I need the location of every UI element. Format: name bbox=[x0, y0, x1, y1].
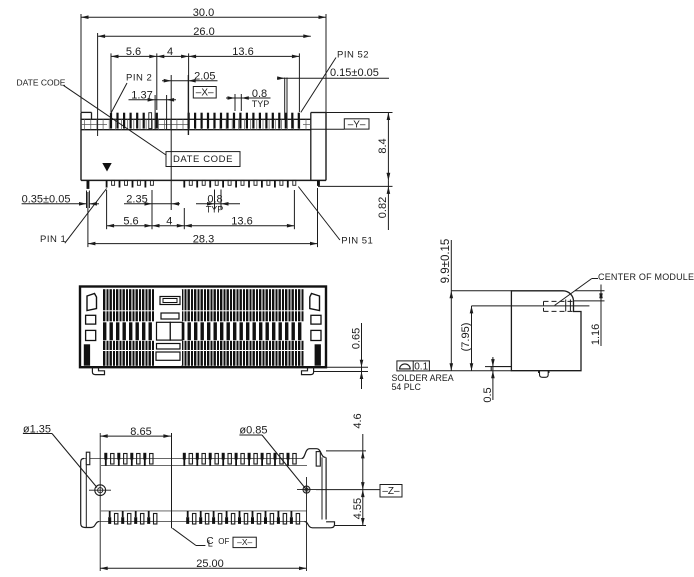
dim 8.4 bbox=[326, 113, 393, 181]
dim 0.8 TYP (top) bbox=[226, 88, 271, 111]
dim chain 5.6 / 4 / 13.6 (top) bbox=[111, 46, 299, 135]
svg-text:8.65: 8.65 bbox=[130, 426, 151, 438]
front view left end details bbox=[84, 294, 97, 366]
svg-text:9.9±0.15: 9.9±0.15 bbox=[440, 239, 452, 284]
pin 1 label bbox=[40, 189, 107, 246]
datum -Z- box bbox=[316, 485, 402, 498]
svg-text:DATE CODE: DATE CODE bbox=[17, 77, 66, 87]
svg-text:–X–: –X– bbox=[237, 537, 252, 547]
dim 0.8 TYP (bottom) bbox=[196, 190, 240, 215]
dim 0.5 bbox=[482, 357, 495, 403]
card contact bbox=[566, 300, 571, 312]
svg-text:5.6: 5.6 bbox=[123, 215, 138, 227]
svg-text:25.00: 25.00 bbox=[196, 558, 224, 570]
svg-text:PIN 51: PIN 51 bbox=[341, 236, 373, 247]
dim chain 5.6 / 4 / 13.6 (bottom) bbox=[107, 190, 295, 229]
pin 52 label bbox=[301, 50, 369, 113]
date code leader bbox=[64, 85, 167, 155]
slot center line bbox=[472, 305, 590, 307]
dim 28.3 bbox=[88, 188, 318, 247]
svg-text:0.65: 0.65 bbox=[351, 328, 363, 349]
dim 0.15±0.05 (pin tail) bbox=[277, 67, 389, 119]
svg-text:PIN 2: PIN 2 bbox=[126, 73, 152, 84]
pin 2 label bbox=[111, 73, 153, 115]
svg-text:–Y–: –Y– bbox=[348, 119, 366, 130]
pin1 datum triangle bbox=[102, 163, 111, 172]
front view center key features bbox=[156, 289, 183, 365]
side view board-lock foot bbox=[491, 367, 511, 371]
svg-text:4: 4 bbox=[166, 215, 172, 227]
mounting hole left (1.35) bbox=[89, 485, 111, 496]
svg-text:28.3: 28.3 bbox=[193, 233, 214, 245]
svg-text:0.35±0.05: 0.35±0.05 bbox=[22, 194, 71, 206]
dim 0.65 bbox=[314, 323, 368, 389]
module card (dashed) bbox=[544, 301, 574, 311]
svg-text:DATE CODE: DATE CODE bbox=[173, 154, 233, 165]
bottom view upper pin row bbox=[104, 453, 296, 466]
svg-text:26.0: 26.0 bbox=[193, 26, 214, 38]
svg-text:0.5: 0.5 bbox=[482, 387, 494, 402]
dim 1.37 bbox=[129, 90, 177, 131]
label ø1.35 bbox=[23, 423, 97, 487]
dim 2.05 bbox=[162, 70, 218, 210]
front view right end details bbox=[310, 294, 321, 366]
svg-text:13.6: 13.6 bbox=[232, 46, 253, 58]
top view band cells bbox=[81, 119, 311, 129]
datum -Y- box bbox=[311, 119, 369, 131]
svg-text:0.15±0.05: 0.15±0.05 bbox=[330, 67, 379, 79]
svg-text:4: 4 bbox=[167, 46, 173, 58]
svg-text:–Z–: –Z– bbox=[382, 486, 400, 497]
svg-text:OF: OF bbox=[218, 537, 229, 546]
front view left foot bbox=[92, 368, 104, 375]
center of module label bbox=[555, 272, 694, 306]
bottom view outline bbox=[81, 449, 335, 528]
svg-text:0.82: 0.82 bbox=[377, 197, 389, 218]
dim 8.65 bbox=[100, 426, 171, 571]
centerline of -X- label bbox=[172, 528, 256, 548]
svg-text:4.55: 4.55 bbox=[352, 498, 364, 519]
svg-text:8.4: 8.4 bbox=[377, 138, 389, 153]
svg-text:5.6: 5.6 bbox=[126, 46, 141, 58]
svg-text:4.6: 4.6 bbox=[352, 413, 364, 428]
svg-text:1.37: 1.37 bbox=[131, 90, 152, 102]
svg-text:2.05: 2.05 bbox=[194, 70, 215, 82]
front view outline bbox=[80, 287, 326, 368]
svg-text:0.1: 0.1 bbox=[414, 361, 428, 372]
date code box bbox=[166, 152, 240, 167]
svg-text:1.16: 1.16 bbox=[590, 324, 602, 345]
svg-text:–X–: –X– bbox=[196, 88, 214, 99]
top view lower pin row (pins 1-51) bbox=[106, 180, 296, 187]
label ø0.85 bbox=[239, 425, 305, 489]
svg-text:30.0: 30.0 bbox=[193, 7, 214, 19]
solder area base line bbox=[430, 370, 512, 372]
front view contact stripes bbox=[103, 289, 304, 366]
front view right foot bbox=[302, 368, 314, 375]
dim 25.00 bbox=[100, 558, 306, 570]
top view body outline bbox=[81, 112, 326, 180]
svg-text:13.6: 13.6 bbox=[231, 215, 252, 227]
bottom view key centerline bbox=[171, 433, 173, 528]
svg-text:(7.95): (7.95) bbox=[460, 323, 472, 352]
dim 0.82 bbox=[318, 173, 393, 230]
solder area flag bbox=[392, 361, 454, 392]
dim 2.35 bbox=[124, 190, 180, 229]
svg-text:54 PLC: 54 PLC bbox=[392, 382, 422, 392]
dim 4.6 bbox=[326, 413, 366, 489]
svg-text:PIN 52: PIN 52 bbox=[337, 50, 369, 61]
dim 30.0 bbox=[81, 7, 326, 113]
dim 4.55 bbox=[335, 490, 367, 526]
svg-text:CENTER OF MODULE: CENTER OF MODULE bbox=[598, 272, 694, 282]
polarization stub right bbox=[317, 180, 320, 186]
dim 9.9±0.15 bbox=[440, 239, 511, 371]
side view body outline bbox=[511, 291, 581, 371]
svg-text:TYP: TYP bbox=[206, 205, 224, 215]
svg-text:TYP: TYP bbox=[252, 99, 270, 109]
svg-text:PIN 1: PIN 1 bbox=[40, 234, 66, 245]
mounting hole right (0.85) bbox=[297, 477, 316, 571]
dim 26.0 bbox=[98, 26, 311, 136]
pin 51 label bbox=[298, 187, 373, 247]
dim 1.16 bbox=[574, 285, 605, 347]
bottom view inner lines bbox=[101, 466, 307, 511]
bottom view lower pin row bbox=[108, 511, 299, 524]
polarization stub left (0.35 wide) bbox=[87, 180, 90, 189]
svg-text:2.35: 2.35 bbox=[126, 194, 147, 206]
bottom view latch slots bbox=[86, 452, 320, 467]
dim 0.35±0.05 bbox=[22, 191, 99, 209]
dim (7.95) bbox=[460, 306, 474, 371]
svg-text:L: L bbox=[208, 538, 213, 548]
datum -X- box bbox=[193, 87, 216, 99]
side view solder lead bbox=[539, 371, 550, 378]
top view upper pin row (pins 2-52) bbox=[110, 113, 300, 129]
